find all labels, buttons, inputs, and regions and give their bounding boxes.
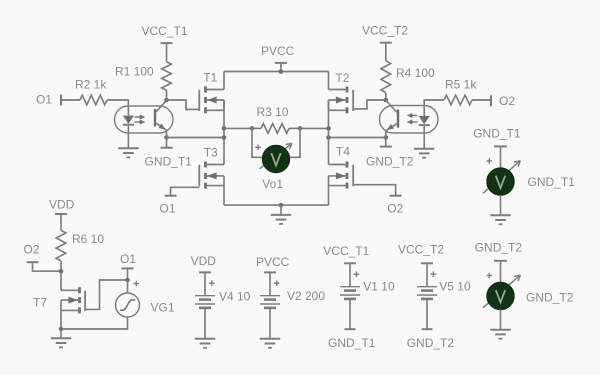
- node R3 left: [250, 126, 255, 131]
- node GND_T2 (battery V5 bottom): [407, 336, 455, 350]
- wire T7 source down: [60, 310, 62, 329]
- wire T2 drain to PVCC rail: [328, 72, 330, 90]
- ground (OC1 LED cathode): [118, 148, 138, 157]
- wire to bridge ground: [280, 205, 282, 215]
- wire OC2 anode to R5: [424, 99, 444, 101]
- svg-text:VDD: VDD: [191, 254, 217, 268]
- transistor T2: [329, 71, 354, 113]
- svg-text:R2 1k: R2 1k: [75, 78, 107, 92]
- svg-text:GND_T1: GND_T1: [473, 126, 521, 140]
- optocoupler phototransistor (left): [155, 100, 167, 137]
- transistor T3: [199, 146, 224, 189]
- resistor R1 100: [115, 62, 171, 91]
- node GND_T2 terminal (right): [366, 147, 414, 169]
- node GND_T1 terminal (voltmeter VM1): [473, 126, 521, 146]
- voltmeter Vo1: [255, 143, 292, 190]
- wire GND_T2 to voltmeter VM2: [500, 261, 502, 283]
- power VDD terminal (battery V4): [191, 254, 217, 268]
- wire GND_T1 to voltmeter VM1: [500, 146, 502, 168]
- node PVCC rail junction: [279, 69, 284, 74]
- wire T4 gate to O2 terminal: [353, 185, 395, 196]
- svg-text:O2: O2: [499, 94, 515, 108]
- node O2 terminal (bridge bottom right): [387, 196, 403, 216]
- svg-text:GND_T2: GND_T2: [407, 336, 455, 350]
- svg-text:O2: O2: [387, 201, 403, 215]
- svg-text:PVCC: PVCC: [256, 255, 290, 269]
- wire OC1 emitter to GND_T1 terminal: [166, 138, 168, 148]
- svg-text:R5 1k: R5 1k: [445, 77, 477, 91]
- ground (OC2 LED cathode): [414, 149, 434, 158]
- wire OC2 emitter to right column: [329, 137, 386, 139]
- wire R4 to node B: [385, 93, 387, 100]
- node O1 terminal (above VG1): [120, 252, 136, 269]
- svg-text:VCC_T1: VCC_T1: [323, 244, 369, 258]
- wire OC2 emitter to GND_T2 terminal: [385, 138, 387, 147]
- wire node A to T1 gate: [167, 100, 200, 109]
- wire VDD to R6: [60, 214, 62, 230]
- power VCC_T2 terminal: [362, 24, 408, 43]
- node O2 terminal (bottom left): [24, 242, 40, 262]
- wire left bridge column: [223, 100, 225, 165]
- transistor T1: [199, 71, 224, 114]
- node E junction (T7 source / VG1 return / ground): [59, 327, 64, 332]
- node right bridge output: [326, 126, 331, 131]
- wire node C to T7 drain: [60, 271, 62, 290]
- transistor T4: [329, 145, 354, 189]
- wire VCC_T2 to R4: [385, 43, 387, 61]
- power VCC_T1 terminal (battery V1): [323, 244, 369, 258]
- wire PVCC top rail: [224, 71, 329, 73]
- wire T7 gate to node D: [85, 280, 127, 309]
- wire R5 to O2: [472, 99, 491, 101]
- svg-text:VCC_T2: VCC_T2: [398, 243, 444, 257]
- svg-text:R3 10: R3 10: [257, 105, 289, 119]
- power PVCC terminal: [261, 44, 295, 72]
- optocoupler phototransistor (right): [386, 100, 398, 137]
- svg-text:VCC_T2: VCC_T2: [362, 24, 408, 38]
- transistor T7: [33, 287, 85, 313]
- resistor R6 10: [56, 230, 104, 260]
- svg-text:GND_T1: GND_T1: [528, 175, 576, 189]
- node bottom rail junction: [279, 203, 284, 208]
- wire node E to ground: [60, 329, 62, 338]
- battery V2 200: [260, 272, 326, 347]
- svg-text:V2 200: V2 200: [287, 289, 325, 303]
- svg-text:GND_T2: GND_T2: [475, 241, 523, 255]
- wire node D to VG1: [127, 280, 129, 293]
- wire T3 gate to O1 terminal: [171, 187, 200, 195]
- battery V5 10: [417, 263, 471, 329]
- ground (VG1/T7): [51, 338, 71, 347]
- wire R2 to optocoupler OC1 anode: [107, 99, 128, 101]
- power VCC_T1 terminal: [142, 24, 188, 43]
- voltage generator VG1: [116, 281, 175, 317]
- optocoupler body (left): [115, 106, 174, 133]
- svg-text:GND_T2: GND_T2: [366, 155, 414, 169]
- resistor R4 100: [381, 61, 435, 93]
- wire right bridge column: [328, 100, 330, 165]
- node O1 terminal (bridge bottom left): [160, 196, 177, 216]
- wire mid rail right: [300, 127, 329, 129]
- svg-text:V1 10: V1 10: [363, 279, 395, 293]
- svg-text:R1 100: R1 100: [115, 64, 154, 78]
- node OC2 emitter junction: [384, 135, 389, 140]
- node left bridge output: [222, 126, 227, 131]
- svg-text:VCC_T1: VCC_T1: [142, 24, 188, 38]
- ground (bridge): [271, 215, 291, 224]
- wire Vo1 left branch: [252, 128, 264, 157]
- optocoupler light arrows (right): [407, 113, 418, 125]
- node A junction (R1 / OC1 collector / T1 gate): [164, 98, 169, 103]
- wire Vo1 right branch: [288, 128, 300, 157]
- svg-text:T7: T7: [33, 296, 47, 310]
- node GND_T2 terminal (voltmeter VM2): [475, 241, 523, 261]
- wire mid rail left: [224, 127, 252, 129]
- svg-text:T2: T2: [335, 71, 349, 85]
- svg-text:R6 10: R6 10: [72, 232, 104, 246]
- svg-text:R4 100: R4 100: [396, 66, 435, 80]
- svg-text:V5 10: V5 10: [439, 279, 471, 293]
- node B junction (R4 / OC2 collector / T2 gate): [384, 98, 389, 103]
- ground (VM2): [490, 330, 510, 339]
- optocoupler light arrows (left): [135, 115, 146, 125]
- power VDD terminal: [49, 198, 75, 215]
- svg-text:T1: T1: [203, 71, 217, 85]
- wire voltmeter VM1 to ground: [500, 195, 502, 215]
- wire node B to T2 gate: [353, 100, 386, 109]
- voltmeter VM2 GND_T2: [483, 273, 574, 310]
- node OC1 emitter junction: [164, 135, 169, 140]
- node R3 right: [298, 126, 303, 131]
- svg-text:O1: O1: [120, 252, 136, 266]
- svg-text:V4 10: V4 10: [219, 290, 251, 304]
- optocoupler body (right): [380, 106, 439, 134]
- wire VG1 to ground: [61, 317, 128, 329]
- svg-text:Vo1: Vo1: [262, 177, 283, 191]
- svg-text:PVCC: PVCC: [261, 44, 295, 58]
- optocoupler LED (left): [123, 99, 134, 148]
- svg-text:O1: O1: [36, 93, 52, 107]
- resistor R2 1k: [75, 78, 107, 105]
- optocoupler LED (right): [419, 99, 430, 148]
- node C junction (R6 / O2 / T7 drain): [59, 269, 64, 274]
- svg-text:GND_T1: GND_T1: [145, 155, 193, 169]
- wire R1 to node A: [166, 90, 168, 100]
- node D junction (O1 / T7 gate / VG1 +): [125, 278, 130, 283]
- node right column emitter tap: [326, 135, 331, 140]
- wire O2 terminal to node C: [33, 262, 62, 271]
- voltmeter VM1 GND_T1: [483, 158, 575, 195]
- svg-text:VG1: VG1: [151, 301, 175, 315]
- svg-text:GND_T1: GND_T1: [328, 336, 376, 350]
- battery V1 10: [340, 263, 395, 329]
- svg-text:VDD: VDD: [49, 198, 75, 212]
- wire T4 source down: [328, 186, 330, 206]
- svg-text:T4: T4: [336, 145, 350, 159]
- wire voltmeter VM2 to ground: [500, 309, 502, 329]
- node left column emitter tap: [222, 135, 227, 140]
- resistor R5 1k: [444, 77, 477, 105]
- svg-text:T3: T3: [204, 146, 218, 160]
- node O2 output terminal: [491, 94, 515, 108]
- power VCC_T2 terminal (battery V5): [398, 243, 444, 257]
- svg-text:O2: O2: [24, 242, 40, 256]
- node GND_T1 (battery V1 bottom): [328, 336, 376, 350]
- wire T1 drain to PVCC rail: [223, 72, 225, 90]
- resistor R3 10: [252, 105, 300, 133]
- wire O1 to R2: [61, 99, 80, 101]
- wire bottom rail: [224, 204, 329, 206]
- ground (VM1): [490, 215, 510, 224]
- wire OC1 emitter to left column: [167, 137, 225, 139]
- svg-text:O1: O1: [160, 201, 176, 215]
- node GND_T1 terminal (left): [145, 148, 193, 169]
- wire R6 to node C: [60, 261, 62, 271]
- svg-text:GND_T2: GND_T2: [526, 291, 574, 305]
- power PVCC terminal (battery V2): [256, 255, 290, 269]
- wire O1 terminal down: [127, 268, 129, 280]
- battery V4 10: [195, 272, 251, 347]
- node O1 input terminal: [36, 93, 61, 107]
- wire VCC_T1 to R1: [166, 43, 168, 62]
- wire T3 source down: [223, 186, 225, 206]
